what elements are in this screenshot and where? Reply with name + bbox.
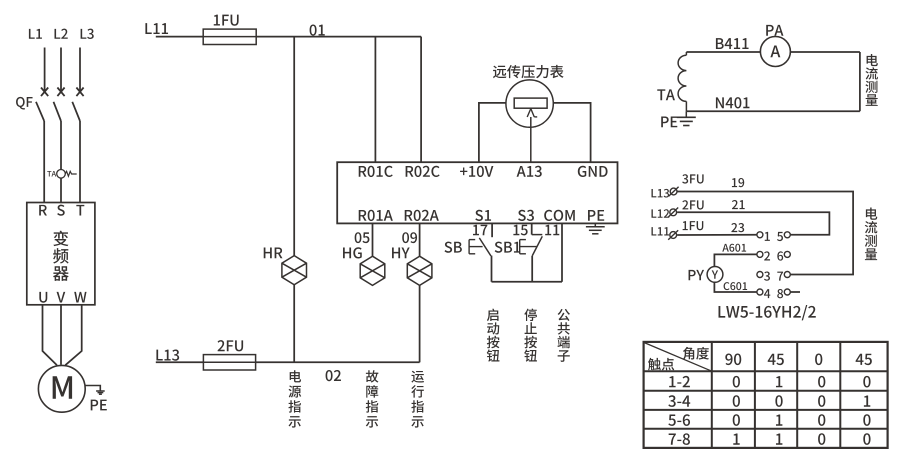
table header diagonal	[644, 343, 712, 372]
fuse 3FU sym	[669, 187, 679, 197]
button SB1 blade NC	[532, 236, 542, 256]
wire L13 to fuse	[156, 361, 204, 363]
motor M circle	[38, 365, 85, 412]
CT TA coil	[678, 52, 686, 111]
fuse 3FU label	[682, 174, 703, 183]
node A601 label	[722, 244, 746, 252]
terminal R02C	[406, 166, 440, 177]
wire A601	[714, 254, 757, 266]
wire 21	[677, 212, 829, 235]
ammeter PA letter A	[770, 46, 780, 58]
lamp HG	[360, 256, 385, 285]
terminal GND	[578, 166, 608, 177]
lamp HY	[407, 256, 432, 285]
wire S1 down (17)	[491, 223, 493, 237]
terminal R02A	[405, 210, 439, 221]
button SB blade NO	[479, 238, 491, 256]
table angle headers	[725, 354, 872, 366]
wire 01 to R02C	[420, 37, 422, 163]
motor PE label	[91, 400, 107, 411]
breaker QF cross pole3	[76, 88, 83, 97]
node N401 label	[716, 97, 750, 108]
terminal S3	[518, 210, 534, 221]
node C601 label	[724, 282, 748, 290]
breaker QF label	[16, 97, 32, 110]
wire 01 bus	[256, 36, 421, 38]
wire R02A to HY (09)	[419, 223, 421, 256]
motor M letter	[53, 376, 72, 398]
node 21 label	[732, 200, 745, 209]
terminal +10V	[460, 166, 493, 177]
motor PE wire	[85, 386, 105, 395]
fuse 2FU sym (PY)	[668, 208, 678, 218]
wire V to motor	[60, 305, 62, 365]
contact table grid	[644, 342, 888, 448]
breaker QF cross pole2	[57, 88, 64, 97]
terminal S1	[475, 210, 491, 221]
wire SB to rail	[491, 256, 493, 282]
CT TA label	[657, 89, 675, 100]
voltmeter PY circle	[707, 267, 723, 283]
wire U to motor	[43, 305, 58, 365]
wire HR to 02	[293, 285, 295, 363]
lamp HR label	[264, 247, 283, 258]
node L13 label	[156, 349, 179, 360]
wire PA right	[790, 51, 860, 53]
terminal R01C	[359, 166, 393, 177]
node L11 label (PY)	[652, 227, 670, 235]
VFD U1 box	[27, 203, 95, 305]
node 17 label	[473, 225, 487, 235]
breaker QF blade pole2	[54, 102, 62, 121]
button SB1 stop bar	[532, 234, 543, 236]
node L2 label	[55, 29, 68, 39]
button SB1 actuator	[520, 240, 537, 254]
VFD terminal T	[76, 205, 84, 216]
label 运行指示	[411, 371, 424, 428]
PE label (TA)	[661, 116, 677, 127]
ground at TA	[677, 111, 696, 125]
wire L2 drop	[60, 48, 62, 92]
node 19 label	[732, 178, 744, 187]
node B411 label	[716, 38, 749, 49]
switch model LW5-16YH2/2	[719, 305, 816, 320]
node 11 label	[545, 225, 559, 235]
node L13 label (PY)	[652, 189, 670, 198]
pressure gauge circle	[506, 80, 553, 127]
label 电源指示	[288, 370, 301, 427]
wire pole3 to VFD	[79, 121, 81, 203]
wire pole1 to VFD	[43, 121, 45, 203]
wire S3 down (15)	[531, 223, 533, 234]
node L12 label (PY)	[652, 209, 670, 218]
button SB1 label	[495, 242, 520, 253]
ammeter PA label	[766, 25, 783, 36]
breaker QF cross pole1	[41, 88, 48, 97]
label 电流测量 (V)	[865, 208, 878, 261]
fuse 1FU label	[214, 15, 239, 26]
wire L3 drop	[79, 48, 81, 92]
VFD terminal R	[39, 205, 47, 216]
fuse 1FU body	[203, 29, 256, 44]
wire SB1 to rail	[531, 256, 533, 282]
wire pole2 to VFD	[60, 121, 62, 203]
pressure gauge wiper arrow	[527, 109, 537, 163]
terminal 8 stub	[790, 291, 800, 293]
lamp HG label	[343, 247, 362, 258]
wire R01A to HG (05)	[372, 223, 374, 256]
control terminal box	[337, 162, 617, 223]
wire 23	[677, 234, 757, 236]
node 05 label	[355, 232, 370, 243]
lamp HY label	[392, 247, 410, 258]
wire 19	[678, 192, 854, 275]
label 公共端子	[557, 309, 569, 362]
fuse 1FU sym (PY)	[668, 230, 678, 240]
node 15 label	[513, 225, 527, 236]
gauge label 远传压力表	[493, 65, 564, 78]
wire gauge to GND	[553, 103, 590, 162]
button SB label	[444, 242, 461, 253]
pressure gauge pot body	[514, 98, 547, 108]
terminal PE ground	[586, 223, 605, 233]
wire N401	[686, 110, 860, 112]
wire W to motor	[65, 305, 81, 365]
VFD terminal U	[39, 292, 47, 303]
wire meter right vertical	[859, 52, 861, 111]
voltmeter PY letter Y	[712, 270, 718, 278]
label 电流测量 (A)	[865, 54, 877, 106]
wire L11 to fuse	[156, 36, 203, 38]
wire HY to 02	[419, 285, 421, 362]
fuse 2FU label	[218, 340, 244, 351]
node 01 label	[310, 24, 325, 35]
terminal PE	[588, 210, 604, 221]
terminal COM	[544, 210, 575, 221]
wire COM down (11)	[561, 223, 563, 281]
ammeter PA circle	[760, 37, 790, 67]
wire L1 drop	[44, 48, 46, 92]
current transformer TA on phase S	[47, 170, 76, 179]
VFD terminal W	[74, 292, 86, 303]
table header 触点	[648, 358, 674, 371]
node 09 label	[402, 232, 417, 243]
switch terminal numbers	[764, 232, 783, 298]
node 23 label	[731, 223, 744, 232]
label 故障指示	[366, 370, 379, 427]
label 停止按钮	[524, 308, 537, 361]
VFD label 变频器	[53, 231, 69, 281]
VFD terminal V	[57, 292, 66, 303]
button SB actuator	[469, 240, 483, 254]
breaker QF blade pole1	[36, 102, 44, 121]
fuse 1FU label (PY)	[683, 221, 704, 230]
table data cells	[668, 376, 870, 445]
switch terminal circles	[757, 232, 790, 295]
node L3 label	[81, 29, 94, 39]
terminal R01A	[359, 210, 393, 221]
wire 02 bus	[256, 361, 420, 363]
node L1 label	[29, 29, 42, 39]
wire button common rail	[492, 281, 563, 283]
VFD terminal S	[57, 205, 65, 216]
label 启动按钮	[487, 309, 500, 362]
terminal A13	[517, 166, 542, 177]
wire C601	[714, 282, 757, 292]
wire gauge to +10V	[479, 103, 506, 162]
wire 01 to R01C	[374, 37, 376, 163]
fuse 2FU body	[203, 355, 255, 370]
wire 01 to HR	[293, 37, 295, 256]
node 02 label	[326, 370, 341, 381]
breaker QF blade pole3	[72, 102, 80, 121]
table header 角度	[683, 347, 709, 360]
node L11 label	[145, 23, 168, 34]
voltmeter PY label	[689, 270, 705, 280]
fuse 2FU label (PY)	[682, 200, 703, 209]
wire B411	[686, 51, 760, 53]
lamp HR	[282, 256, 307, 285]
